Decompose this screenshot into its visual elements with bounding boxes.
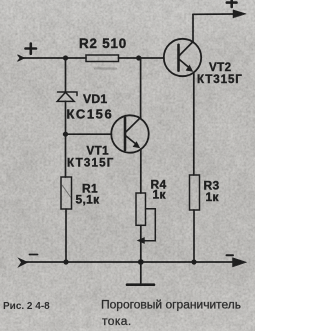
scan smudge under R2 (95, 67, 116, 69)
wire: node A down to R1 (65, 134, 67, 177)
- sign (input bottom) (30, 254, 38, 256)
resistor R2 (86, 55, 119, 62)
wire: VT1 emitter down to R4 (140, 149, 142, 193)
transistor VT2 base bar (177, 45, 180, 71)
wire: VT2 emitter down to R3 (193, 74, 195, 176)
+ sign (input) (26, 44, 37, 54)
transistor VT2 body (164, 39, 201, 76)
resistor R3 (190, 175, 200, 210)
node A: VD1 / VT1 base / R1 junction (63, 132, 68, 137)
caption (3, 298, 241, 329)
- sign (output bottom right) (227, 254, 234, 256)
node: R1 to rail (63, 259, 68, 264)
node: R3 to rail (191, 259, 196, 264)
transistor VT1 collector stroke (125, 117, 140, 132)
transistor VT1 body (111, 115, 148, 152)
transistor VT2 emitter stroke with arrow (179, 59, 190, 68)
scan grain overlay (light) (0, 0, 255, 331)
transistor VT1 emitter stroke with arrow (125, 136, 136, 145)
resistor R1 (61, 177, 72, 209)
wire: node A to VT1 base (66, 133, 112, 135)
node: VT1 collector tap on top rail (136, 55, 141, 60)
wire: top rail input to R2 (22, 57, 86, 59)
paper background (0, 0, 255, 331)
wire: R4 bottom to rail (140, 225, 142, 262)
wire: top output to arrow (193, 13, 235, 15)
output + arrow (233, 10, 246, 18)
wire: R2 right to VT2 base (119, 57, 165, 59)
wire: VD1 anode down to node A (65, 101, 67, 134)
wire: VT2 collector up (192, 14, 194, 41)
wire: R1 bottom to rail (65, 209, 67, 262)
zener diode VD1 cathode bar (58, 92, 78, 96)
ground (140, 262, 142, 284)
wire: bottom rail (26, 261, 233, 263)
node: R4/ground to rail (138, 259, 144, 265)
input - terminal arrow (19, 258, 28, 267)
input + terminal arrow (18, 55, 25, 62)
resistor R4 (rheostat) body (136, 193, 146, 225)
transistor VT2 collector stroke (179, 42, 193, 56)
+ sign (output top right) (227, 0, 237, 7)
wire: R3 bottom to rail (193, 210, 195, 262)
wire: VT1 collector up to top rail (140, 58, 142, 117)
wire: top rail down to VD1 (65, 58, 67, 93)
node: VD1 tap on top rail (63, 55, 68, 60)
output - arrow (233, 258, 247, 267)
rheostat R4 wiper link (143, 209, 155, 241)
zener diode VD1 triangle (57, 92, 74, 101)
transistor VT1 base bar (124, 118, 127, 150)
